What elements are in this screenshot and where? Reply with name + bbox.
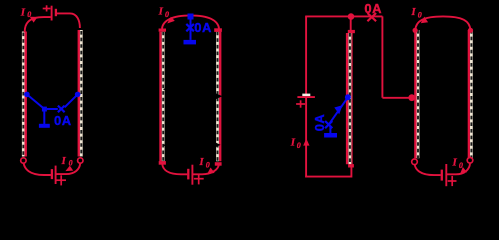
probe tap square S2 [188, 14, 194, 20]
svg-text:0: 0 [69, 159, 73, 168]
ground bar S2 [184, 40, 197, 45]
terminal ring bottom-right S1 [78, 158, 83, 163]
conductor L1 left (dashed wire) [23, 32, 25, 157]
svg-text:I: I [198, 156, 204, 168]
svg-text:0: 0 [206, 161, 210, 170]
svg-text:0: 0 [418, 11, 422, 20]
black current arrow right-lower S2 [214, 142, 220, 148]
svg-text:I: I [158, 5, 164, 17]
node dot blue right S1 [75, 92, 81, 98]
ground bar S3 [324, 133, 337, 138]
top junction dot left S4 [413, 28, 418, 33]
probe wire left S1 [27, 94, 44, 109]
wire bottom-right arc S4 [446, 164, 470, 175]
probe wire right S1 [65, 94, 78, 107]
ammeter X S3 (blue) [325, 121, 332, 128]
conductor L5 (idle dashed wire) [347, 33, 352, 164]
wire bottom-left arc S1 [24, 163, 51, 175]
node dot blue left S1 [24, 92, 30, 98]
cap top conductor S3 [348, 30, 355, 33]
battery B5 long plate [445, 164, 447, 186]
wire bottom-right arc S1 [56, 163, 81, 174]
battery B1 top: plus sign [43, 5, 51, 11]
svg-text:I: I [410, 6, 416, 18]
ammeter X S1 [58, 106, 65, 113]
svg-text:I: I [61, 155, 67, 167]
terminal ring bottom-left S4 [412, 159, 418, 165]
svg-text:0: 0 [165, 10, 169, 19]
wire mid link to structure 4 [382, 97, 411, 99]
battery B3: short plate [187, 169, 189, 180]
battery B3: long plate [191, 165, 193, 185]
ground lead S3 [329, 127, 331, 133]
wire top arc S2 [162, 15, 219, 28]
battery B2 bottom: short plate [51, 169, 53, 179]
battery B4 short plate (white) [302, 94, 310, 97]
battery B2 long plate [55, 166, 57, 184]
black current arrow left-upper S2 [163, 86, 170, 92]
svg-text:0A: 0A [312, 114, 327, 132]
current arrow top S1 [30, 17, 38, 23]
wire bottom-left arc S4 [415, 165, 441, 176]
svg-text:0: 0 [459, 161, 463, 170]
svg-text:0: 0 [27, 10, 31, 19]
black current arrow left-lower S2 [163, 142, 170, 148]
conductor L2 right (dashed wire) [79, 30, 82, 157]
conductor L3 left [161, 32, 164, 162]
current arrow bottom S2 [207, 168, 215, 175]
ammeter X on top wire S3 [367, 13, 376, 21]
probe lead upper S2 [190, 20, 192, 40]
wire bottom-left arc S2 [162, 165, 187, 175]
battery B3 plus sign [194, 174, 204, 185]
svg-text:I: I [452, 157, 458, 169]
conductor L6 left [415, 30, 418, 158]
wire loop bottom [305, 176, 351, 178]
probe junction square S1 [42, 107, 47, 112]
wire loop right side [381, 16, 383, 97]
current arrow bottom S1 [65, 166, 73, 172]
current arrow top S4 [421, 17, 428, 24]
svg-text:I: I [290, 136, 296, 148]
ground lead S1 [43, 112, 45, 125]
battery B5 plus sign [448, 176, 457, 186]
top junction dot right S4 [468, 28, 473, 33]
battery B1 long plate [51, 6, 53, 21]
probe wire middle S1 [47, 108, 58, 110]
wire loop left side lower [305, 98, 307, 178]
conductor L4 right [218, 32, 221, 162]
current arrow bottom S4 [460, 167, 467, 173]
terminal ring bottom-left S1 [21, 158, 26, 163]
svg-text:I: I [20, 7, 26, 19]
junction dot at structure 4 [408, 94, 415, 101]
svg-text:0A: 0A [364, 1, 382, 16]
battery B4 long plate [297, 96, 315, 98]
ammeter X S2 [186, 24, 194, 31]
battery B4 plus sign [296, 100, 305, 107]
link wire from dot to conductor cap [350, 17, 352, 31]
conductor L7 right [469, 30, 472, 158]
cap top-right S2 [214, 28, 222, 32]
junction dot S3 top [348, 13, 355, 20]
wire bottom-right arc S2 [192, 164, 219, 174]
current arrow top S2 [167, 17, 175, 24]
probe diagonal wire S3 [329, 97, 348, 124]
current arrow on left wire S3 [303, 139, 309, 146]
wire stub to conductor bottom [350, 167, 352, 178]
cap bottom-left S2 [159, 161, 166, 165]
probe dot on conductor S3 [345, 94, 351, 100]
cap bottom-right S2 [215, 162, 222, 166]
svg-text:0: 0 [297, 141, 301, 150]
cap bottom conductor S3 [348, 164, 354, 167]
svg-text:0A: 0A [194, 20, 212, 35]
svg-text:0A: 0A [54, 113, 72, 128]
probe arrow S3 [334, 105, 342, 114]
terminal ring bottom-right S4 [467, 158, 473, 164]
wire loop top [305, 15, 382, 17]
black current arrow right-upper S2 [216, 93, 223, 99]
wire top arc S4 [415, 16, 470, 30]
ground bar S1 [39, 124, 50, 128]
battery B5 short plate [441, 170, 443, 181]
wire loop left side upper [305, 16, 307, 94]
wire top-right arc S1 [56, 13, 80, 28]
cap top-left S2 [159, 29, 166, 32]
wire top-left arc S1 [25, 17, 51, 32]
battery B2 plus sign [56, 175, 66, 185]
battery B1 short plate [55, 9, 57, 16]
